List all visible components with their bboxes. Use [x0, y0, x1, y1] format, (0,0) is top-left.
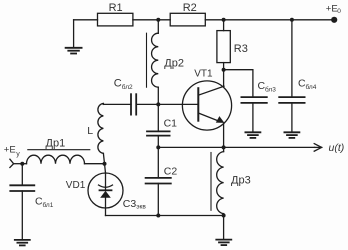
svg-text:C2: C2 [164, 166, 178, 178]
wire: R2 to +E0 terminal [205, 19, 334, 21]
terminal +E0 [331, 17, 337, 23]
capacitor Cбл3 [241, 97, 266, 132]
wire: node to Cбл3 [224, 70, 253, 97]
label Cбл1 [35, 196, 54, 209]
node: C1/C2/output junction [156, 145, 160, 149]
svg-text:Др1: Др1 [46, 138, 66, 150]
svg-text:R2: R2 [183, 2, 197, 14]
label +Ey [4, 145, 21, 158]
svg-text:L: L [87, 125, 93, 137]
wire: node to VT1 base [158, 103, 198, 105]
wire: bottom rail (VD1 to Др3) [106, 215, 224, 217]
svg-text:у: у [16, 151, 20, 158]
svg-text:C3: C3 [123, 198, 137, 210]
svg-text:бл1: бл1 [43, 201, 54, 209]
capacitor Cбл1 [10, 164, 34, 240]
ground (below Cбл3) [245, 132, 260, 138]
node: input / Cбл1 / Др1 junction [20, 162, 24, 166]
node: emitter / Др3 top junction [222, 145, 226, 149]
svg-text:VT1: VT1 [194, 68, 213, 79]
wire: rail to Cбл4 [291, 20, 293, 97]
svg-text:C1: C1 [164, 117, 178, 129]
svg-text:0: 0 [337, 8, 341, 15]
resistor R2 [170, 13, 205, 26]
varactor diode VD1 [88, 164, 123, 216]
label +E0 [326, 4, 341, 16]
node: Др2 / Cбл2 / C1 / base junction [156, 102, 160, 106]
terminal +Ey input chevron [10, 159, 22, 167]
inductor Др1 [22, 150, 104, 164]
ground (below Др3) [216, 216, 231, 246]
label C3экв [123, 198, 147, 210]
node: R3 bottom / collector / Cбл3 junction [222, 68, 226, 72]
inductor Др3 [211, 147, 224, 215]
transistor VT1 [182, 70, 231, 148]
svg-text:+E: +E [4, 145, 16, 156]
svg-text:C: C [114, 78, 122, 90]
capacitor C2 [146, 147, 171, 215]
svg-text:Др2: Др2 [164, 58, 184, 70]
wire: top rail left segment to R1 [74, 19, 98, 21]
wire: R1 to R2 [133, 19, 170, 21]
output arrow u(t) [314, 144, 321, 152]
inductor L [98, 103, 105, 163]
svg-text:R1: R1 [109, 2, 123, 14]
capacitor Cбл4 [279, 97, 304, 132]
capacitor C1 [147, 104, 170, 147]
svg-text:бл4: бл4 [306, 83, 317, 91]
inductor Др2 [147, 20, 159, 105]
resistor R3 [217, 20, 230, 70]
node: Др3 bottom junction [222, 214, 226, 218]
node: R1/R2/Др2 junction [156, 18, 160, 22]
ground (below Cбл1) [15, 240, 30, 246]
resistor R1 [98, 13, 133, 26]
svg-text:R3: R3 [234, 43, 248, 55]
svg-text:Др3: Др3 [231, 175, 251, 187]
svg-text:экв: экв [136, 203, 146, 210]
capacitor Cбл2 [103, 94, 158, 114]
node: R3 top junction [222, 18, 226, 22]
node: Cбл4 top junction [290, 18, 294, 22]
label Cбл3 [258, 80, 277, 93]
ground (below Cбл4) [284, 132, 299, 138]
label Cбл2 [114, 78, 133, 91]
node: C2 bottom junction [156, 214, 160, 218]
svg-text:+E: +E [326, 4, 338, 15]
svg-text:бл2: бл2 [122, 83, 133, 91]
wire: output line [158, 146, 314, 148]
ground (top-left, on R1 left side) [66, 20, 82, 54]
svg-text:бл3: бл3 [265, 85, 276, 93]
svg-text:u(t): u(t) [329, 142, 345, 154]
node: Др1 / L / VD1 junction [103, 162, 107, 166]
svg-text:VD1: VD1 [66, 180, 86, 191]
label Cбл4 [298, 78, 317, 91]
